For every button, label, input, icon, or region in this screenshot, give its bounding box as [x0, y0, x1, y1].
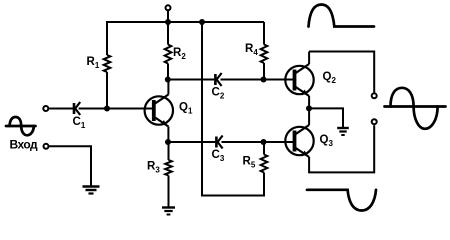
svg-text:C1: C1 — [73, 116, 86, 130]
svg-text:Q2: Q2 — [323, 71, 337, 85]
svg-text:R5: R5 — [243, 156, 256, 170]
svg-text:Вход: Вход — [10, 138, 39, 152]
svg-text:R1: R1 — [87, 56, 100, 70]
svg-text:C3: C3 — [212, 149, 225, 163]
svg-text:Q1: Q1 — [179, 102, 193, 116]
svg-text:R4: R4 — [245, 43, 258, 57]
svg-text:R2: R2 — [173, 47, 186, 61]
svg-text:Q3: Q3 — [320, 134, 334, 148]
svg-text:R3: R3 — [147, 161, 160, 175]
svg-text:C2: C2 — [212, 87, 225, 101]
